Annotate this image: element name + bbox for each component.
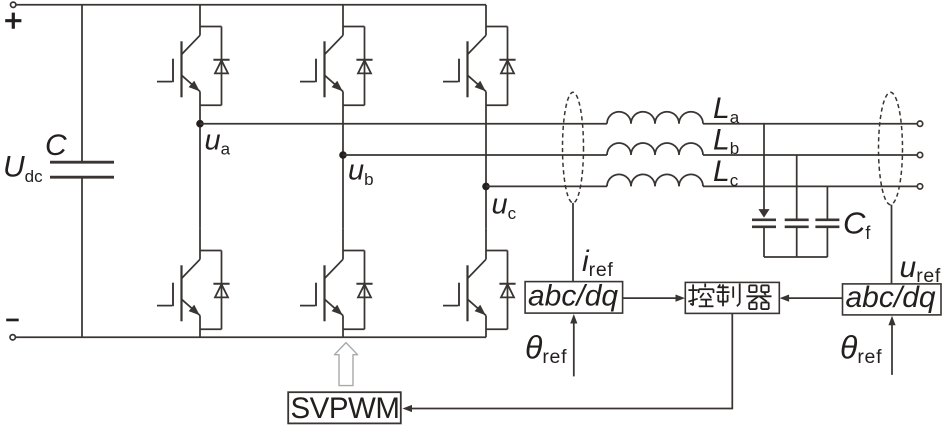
- diode D4 triangle: [215, 284, 228, 297]
- transistor Q1 gate bar: [172, 59, 174, 82]
- transistor Q6 collector angled line: [468, 259, 487, 278]
- svg-text:abc/dq: abc/dq: [846, 281, 936, 314]
- wire voltage sensor to abc/dq: [891, 205, 893, 284]
- wire leg 1 emitter to phase node: [199, 92, 201, 124]
- capacitor Cf phase c plates: [815, 220, 839, 227]
- hollow arrow SVPWM to inverter gates: [334, 343, 357, 386]
- arrow current into Cf: [758, 209, 769, 218]
- transistor Q3 gate lead: [443, 81, 458, 83]
- transistor Q2 emitter angled line: [325, 75, 344, 91]
- wire diode branch vertical: [221, 251, 223, 330]
- wire diode branch top: [486, 250, 508, 252]
- transistor Q4 emitter arrow: [189, 305, 200, 315]
- label + polarity sign: [5, 13, 21, 29]
- wire diode branch bottom: [343, 328, 365, 330]
- wire diode branch top: [200, 250, 222, 252]
- arrow theta-ref right into abc/dq: [888, 316, 895, 326]
- transistor Q5 (IGBT) collector lead: [342, 229, 344, 259]
- transistor Q3 body bar: [466, 41, 468, 97]
- label 控制器 (controller text): [688, 284, 771, 310]
- terminal phase c output: [917, 184, 922, 189]
- svg-text:SVPWM: SVPWM: [291, 392, 400, 425]
- transistor Q2 gate bar: [315, 59, 317, 82]
- arrow into controller right: [780, 295, 790, 302]
- diode D1 triangle: [215, 60, 228, 73]
- wire Cf phase c to star point: [826, 227, 828, 257]
- voltage sensor ellipse (dashed): [879, 92, 903, 204]
- wire phase b drop to Cf: [796, 155, 798, 220]
- wire phase b inductor to output terminal: [703, 154, 917, 156]
- wire diode branch vertical: [507, 27, 509, 106]
- transistor Q3 emitter arrow: [475, 81, 486, 91]
- wire phase c inductor to output terminal: [703, 185, 917, 187]
- wire controller to SVPWM: [410, 313, 732, 408]
- wire diode branch bottom: [486, 104, 508, 106]
- wire leg 1 lower emitter to bottom rail: [199, 316, 201, 338]
- wire Cf phase a to star point: [763, 227, 765, 257]
- wire phase c drop to Cf: [826, 186, 828, 219]
- arrow into controller left: [676, 295, 686, 302]
- wire diode branch vertical: [364, 251, 366, 330]
- wire theta-ref left: [573, 322, 575, 377]
- transistor Q6 emitter arrow: [475, 305, 486, 315]
- diode D2 cathode bar: [356, 59, 372, 61]
- svg-text:abc/dq: abc/dq: [528, 280, 618, 313]
- wire diode branch vertical: [507, 251, 509, 330]
- wire phase b inverter to filter inductor: [343, 154, 607, 156]
- wire phase c inverter to filter inductor: [486, 185, 607, 187]
- node ub junction dot: [339, 151, 347, 159]
- block controller 控制器: [685, 282, 779, 313]
- terminal phase b output: [917, 152, 922, 157]
- transistor Q3 emitter angled line: [468, 75, 487, 91]
- inductor La: [607, 112, 703, 124]
- transistor Q3 (IGBT) collector lead: [485, 5, 487, 36]
- transistor Q1 collector angled line: [182, 35, 201, 54]
- transistor Q4 (IGBT) collector lead: [199, 229, 201, 259]
- transistor Q1 gate lead: [157, 81, 172, 83]
- node uc junction dot: [482, 183, 490, 191]
- wire diode branch top: [343, 250, 365, 252]
- transistor Q4 collector angled line: [182, 259, 201, 278]
- wire diode branch bottom: [486, 328, 508, 330]
- transistor Q1 body bar: [180, 41, 182, 97]
- inductor Lb: [607, 143, 703, 155]
- transistor Q2 gate lead: [300, 81, 315, 83]
- transistor Q4 emitter angled line: [182, 299, 201, 315]
- wire phase a inverter to filter inductor: [200, 123, 607, 125]
- transistor Q3 gate bar: [458, 59, 460, 82]
- transistor Q6 (IGBT) collector lead: [485, 229, 487, 259]
- transistor Q1 emitter arrow: [189, 81, 200, 91]
- current sensor ellipse (dashed): [563, 92, 584, 203]
- diode D3 cathode bar: [499, 59, 515, 61]
- capacitor C (DC link): [50, 162, 114, 177]
- capacitor Cf phase b plates: [785, 220, 809, 227]
- wire diode branch bottom: [200, 104, 222, 106]
- diode D4 cathode bar: [213, 283, 229, 285]
- diode D1 cathode bar: [213, 59, 229, 61]
- arrow theta-ref left into abc/dq: [570, 314, 577, 324]
- transistor Q2 body bar: [323, 41, 325, 97]
- diode D5 cathode bar: [356, 283, 372, 285]
- wire current sensor to abc/dq: [572, 203, 574, 282]
- transistor Q5 emitter angled line: [325, 299, 344, 315]
- transistor Q6 emitter angled line: [468, 299, 487, 315]
- wire diode branch top: [486, 26, 508, 28]
- wire theta-ref right: [891, 323, 893, 375]
- wire DC-link capacitor branch bottom: [81, 177, 83, 337]
- wire leg 3 phase node to lower collector: [485, 186, 487, 228]
- wire Cf phase b to star point: [796, 227, 798, 257]
- transistor Q2 (IGBT) collector lead: [342, 5, 344, 36]
- capacitor Cf phase a plates: [752, 220, 776, 227]
- terminal + (positive DC input): [11, 2, 16, 7]
- block abc/dq (voltage): [843, 284, 942, 315]
- arrow into SVPWM: [403, 405, 413, 412]
- transistor Q4 body bar: [180, 265, 182, 321]
- wire leg 2 lower emitter to bottom rail: [342, 316, 344, 338]
- transistor Q2 collector angled line: [325, 35, 344, 54]
- wire leg 2 phase node to lower collector: [342, 155, 344, 229]
- wire abc/dq(voltage) to controller: [787, 297, 843, 299]
- svg-text:C: C: [45, 129, 67, 162]
- wire DC-link capacitor branch top: [81, 5, 83, 162]
- wire bottom DC rail: [15, 336, 486, 338]
- wire top DC rail: [16, 4, 486, 6]
- wire diode branch top: [343, 26, 365, 28]
- wire leg 3 emitter to phase node: [485, 92, 487, 187]
- transistor Q3 collector angled line: [468, 35, 487, 54]
- transistor Q6 gate lead: [443, 305, 458, 307]
- transistor Q5 gate bar: [315, 283, 317, 307]
- diode D3 triangle: [501, 60, 514, 73]
- transistor Q6 body bar: [466, 265, 468, 321]
- wire diode branch vertical: [364, 27, 366, 106]
- wire abc/dq(current) to controller: [623, 297, 678, 299]
- wire leg 1 phase node to lower collector: [199, 124, 201, 229]
- terminal - (negative DC input): [10, 335, 15, 340]
- terminal phase a output: [917, 121, 922, 126]
- label - polarity sign: [6, 319, 19, 322]
- transistor Q5 gate lead: [300, 305, 315, 307]
- inductor Lc: [607, 174, 703, 186]
- transistor Q6 gate bar: [458, 283, 460, 307]
- transistor Q5 collector angled line: [325, 259, 344, 278]
- node ua junction dot: [196, 120, 204, 128]
- wire leg 2 emitter to phase node: [342, 92, 344, 156]
- transistor Q2 emitter arrow: [332, 81, 343, 91]
- wire diode branch bottom: [200, 328, 222, 330]
- block SVPWM: [288, 392, 401, 423]
- diode D5 triangle: [358, 284, 371, 297]
- wire phase a drop to Cf (with current arrow): [763, 124, 765, 210]
- diode D6 triangle: [501, 284, 514, 297]
- wire diode branch top: [200, 26, 222, 28]
- wire phase a inductor to output terminal: [703, 123, 917, 125]
- wire Cf star-point bus: [764, 256, 827, 258]
- transistor Q1 (IGBT) collector lead: [199, 5, 201, 36]
- transistor Q1 emitter angled line: [182, 75, 201, 91]
- transistor Q5 body bar: [323, 265, 325, 321]
- diode D2 triangle: [358, 60, 371, 73]
- diode D6 cathode bar: [499, 283, 515, 285]
- wire leg 3 lower emitter to bottom rail: [485, 316, 487, 338]
- transistor Q5 emitter arrow: [332, 305, 343, 315]
- wire diode branch vertical: [221, 27, 223, 106]
- block abc/dq (current): [525, 282, 623, 314]
- wire diode branch bottom: [343, 104, 365, 106]
- transistor Q4 gate lead: [157, 305, 172, 307]
- transistor Q4 gate bar: [172, 283, 174, 307]
